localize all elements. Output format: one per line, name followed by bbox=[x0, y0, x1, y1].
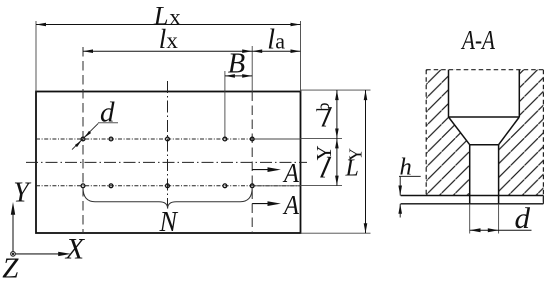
holes row 2 bbox=[81, 184, 254, 188]
counterbore right wall bbox=[518, 70, 520, 117]
cone right bbox=[499, 117, 520, 145]
svg-text:B: B bbox=[228, 48, 245, 79]
svg-text:x: x bbox=[169, 4, 181, 29]
label LY bbox=[345, 148, 366, 182]
dimension d bbox=[470, 229, 532, 231]
svg-text:A-A: A-A bbox=[460, 25, 495, 55]
hole row line 2 bbox=[36, 185, 301, 187]
section outline dashed right bbox=[542, 70, 544, 204]
dimension lb bbox=[336, 90, 338, 138]
dimension Lx extension lines bbox=[35, 21, 37, 92]
Y axis bbox=[12, 214, 14, 252]
svg-text:X: X bbox=[65, 233, 86, 266]
hole row line 1 right segment bbox=[252, 138, 300, 140]
section outline dashed top bbox=[426, 69, 543, 71]
svg-text:d: d bbox=[100, 97, 115, 129]
column centerline 3 bbox=[167, 81, 169, 206]
dimension lx bbox=[83, 50, 252, 52]
label lb bbox=[313, 103, 334, 134]
column line 4 bbox=[224, 71, 226, 139]
dimension lY bbox=[336, 138, 338, 185]
svg-text:A: A bbox=[282, 190, 299, 220]
svg-text:d: d bbox=[515, 203, 531, 235]
svg-text:Y: Y bbox=[312, 145, 336, 160]
leader d bbox=[72, 123, 98, 149]
column line 5 bbox=[251, 46, 253, 92]
hole wall extension left bbox=[469, 204, 471, 234]
strip right end bbox=[542, 196, 544, 204]
counterbore left wall bbox=[448, 70, 450, 117]
right extension line bottom bbox=[301, 232, 371, 234]
svg-text:Y: Y bbox=[346, 148, 366, 161]
right extension line top bbox=[301, 89, 371, 91]
dimension la bbox=[252, 50, 300, 52]
right extension line row2 bbox=[301, 185, 343, 187]
section outline dashed left bbox=[425, 70, 427, 196]
origin Z symbol bbox=[11, 252, 16, 257]
counterbore bottom bbox=[449, 116, 520, 118]
dimension Lx bbox=[36, 24, 301, 26]
block bottom line bbox=[401, 195, 544, 197]
svg-text:A: A bbox=[282, 158, 299, 188]
svg-text:l: l bbox=[159, 24, 167, 54]
svg-text:N: N bbox=[159, 206, 179, 238]
svg-text:b: b bbox=[313, 103, 333, 112]
section arrow A lower bbox=[252, 203, 270, 205]
column line 1 bbox=[82, 47, 84, 233]
section arrow A upper bbox=[252, 169, 270, 171]
strip bottom line bbox=[401, 203, 544, 205]
label lY bbox=[312, 145, 336, 184]
dimension B bbox=[225, 75, 252, 77]
svg-text:Z: Z bbox=[2, 253, 19, 282]
right extension line row1 bbox=[301, 137, 343, 139]
svg-text:l: l bbox=[267, 25, 275, 56]
cone left bbox=[449, 117, 470, 145]
throat line bbox=[470, 144, 499, 146]
X axis bbox=[15, 253, 59, 255]
brace N bbox=[83, 188, 252, 209]
hatched block bbox=[426, 70, 543, 196]
svg-text:x: x bbox=[166, 28, 178, 53]
hole row line 2 right segment bbox=[252, 185, 300, 187]
plate outline (top view) bbox=[36, 92, 301, 234]
horizontal centerline bbox=[26, 161, 307, 163]
hole row line 1 bbox=[36, 138, 301, 140]
hole wall extension right bbox=[498, 204, 500, 234]
dimension LY bbox=[365, 90, 367, 233]
holes row 1 bbox=[81, 137, 254, 141]
svg-text:a: a bbox=[275, 29, 285, 54]
hole left wall bbox=[469, 145, 471, 204]
hole right wall bbox=[498, 145, 500, 204]
